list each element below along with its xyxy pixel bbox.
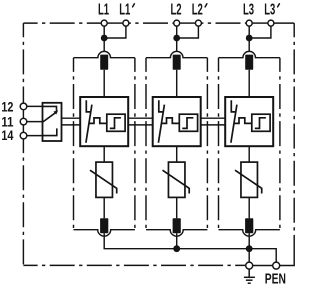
svg-text:14: 14 <box>1 128 13 143</box>
svg-text:12: 12 <box>1 100 13 115</box>
svg-text:PEN: PEN <box>265 272 286 288</box>
svg-text:L2: L2 <box>171 1 182 18</box>
svg-text:L1: L1 <box>119 1 130 18</box>
svg-text:L1: L1 <box>98 1 109 18</box>
svg-text:L3: L3 <box>264 1 275 18</box>
svg-text:L3: L3 <box>243 1 254 18</box>
svg-text:11: 11 <box>1 114 13 129</box>
svg-text:L2: L2 <box>192 1 203 18</box>
